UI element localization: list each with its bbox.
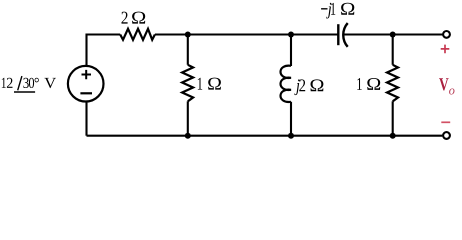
node: top junction of right 1-ohm branch — [390, 32, 396, 38]
inductor j2 ohm — [281, 66, 292, 102]
resistor 1 ohm (right shunt) — [387, 65, 398, 102]
wire: top segment from resistor to capacitor left plate — [155, 33, 338, 35]
wire: right 1-ohm branch bottom lead — [392, 101, 394, 135]
label 1 ohm (right shunt) — [357, 78, 380, 90]
label j2 ohm — [294, 79, 323, 95]
label 1 ohm (left shunt) — [198, 78, 221, 90]
label Vo (red) — [439, 78, 449, 90]
resistor 2-ohm (series, top) — [120, 29, 155, 40]
label -j1 ohm — [321, 3, 354, 19]
terminal: bottom output — [443, 132, 450, 139]
angle slash — [18, 76, 22, 90]
angle underline — [14, 91, 35, 93]
voltage source minus sign — [80, 92, 92, 94]
wire: left 1-ohm branch bottom lead — [187, 101, 189, 135]
node: bottom junction of left 1-ohm branch — [185, 133, 191, 139]
node: top junction of left 1-ohm branch — [185, 32, 191, 38]
output plus sign (red) — [441, 45, 450, 54]
wire: top segment from capacitor to right terminal — [344, 33, 442, 35]
terminal: top output — [443, 31, 450, 38]
wire: top-left segment from source top to resistor R1 — [87, 35, 121, 66]
wire: bottom rail — [87, 135, 443, 137]
voltage source plus sign — [82, 70, 92, 79]
capacitor -j1 ohm curved plate — [343, 23, 347, 47]
wire: right 1-ohm branch top lead — [392, 35, 394, 65]
voltage source VS circle — [68, 66, 104, 102]
wire: j2-ohm branch top lead — [290, 35, 292, 67]
label 12 angle 30 deg V — [2, 78, 56, 88]
wire: source bottom to bottom rail — [85, 102, 87, 136]
wire: left 1-ohm branch top lead — [187, 35, 189, 65]
output minus sign (red) — [441, 121, 450, 123]
node: top junction of j2-ohm branch — [288, 32, 294, 38]
resistor 1 ohm (left shunt) — [182, 65, 193, 102]
node: bottom junction of right 1-ohm branch — [390, 133, 396, 139]
capacitor -j1 ohm flat plate — [337, 24, 339, 45]
node: bottom junction of j2-ohm branch — [288, 133, 294, 139]
wire: j2-ohm branch bottom lead — [290, 102, 292, 136]
label 2 ohm — [122, 12, 146, 24]
